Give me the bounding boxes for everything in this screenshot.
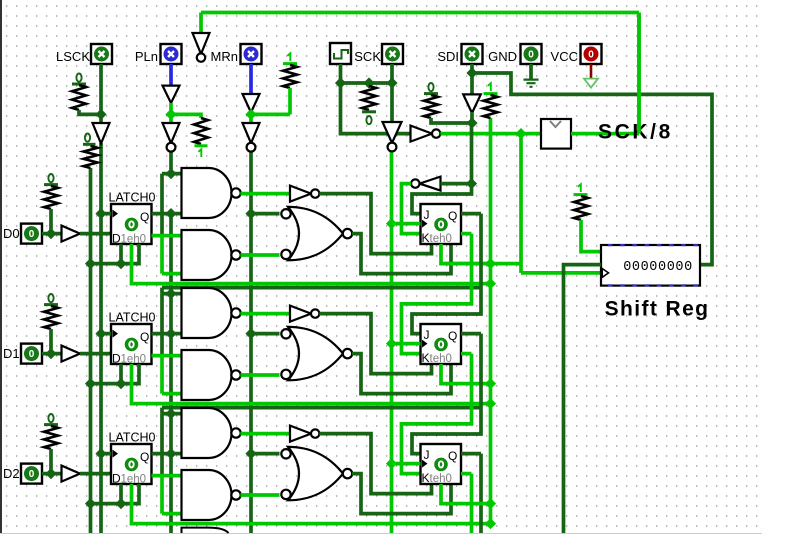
resistor R-LSCK 0-pull <box>72 85 86 110</box>
svg-text:Shift Reg: Shift Reg <box>605 297 710 320</box>
latch U1 box <box>111 204 152 244</box>
junction SCK b <box>363 77 374 88</box>
wire latch2 pin En <box>119 484 123 504</box>
buffer MRn (down) <box>243 94 260 113</box>
wire MRn pin down (blue) <box>249 64 253 94</box>
jk flip-flop FF1 box <box>421 324 462 364</box>
nor N2 <box>288 447 343 500</box>
wire latch0 pin En <box>119 244 123 264</box>
svg-text:Q: Q <box>140 210 149 224</box>
wire top feedback down <box>199 13 203 34</box>
label 0 R2 <box>85 134 90 142</box>
svg-text:Q: Q <box>140 330 149 344</box>
resistor R5 0-pull <box>362 86 376 110</box>
junction latch0 b1 <box>115 258 126 269</box>
resistor R4 pull-1 <box>283 65 297 88</box>
junction MRn tap g1 <box>245 328 256 339</box>
wire D0 to buffer <box>42 232 62 236</box>
wire MRn to nor g0 <box>251 212 280 216</box>
wire latch1 bottom to rail <box>91 364 140 384</box>
wire Q1 feedback row y=287.6 <box>162 286 481 290</box>
wire feedback vertical x=639 <box>637 13 641 134</box>
label 0 R-D0 <box>48 174 53 182</box>
nand U10 A g0 <box>182 168 232 218</box>
wire FF1 pin2 to rail <box>441 364 491 384</box>
rail bar 1 above R4 <box>283 62 297 65</box>
junction PLnn tap <box>165 168 176 179</box>
buffer PLn (down) <box>163 86 180 103</box>
wire latch0 Qn out <box>152 234 182 238</box>
inverter V1 (right) <box>290 306 311 322</box>
svg-text:0: 0 <box>528 50 534 61</box>
jk FF2 state circle <box>434 458 448 472</box>
wire feedback to nandA2 <box>162 292 182 296</box>
wire LSCK pin down <box>99 64 103 123</box>
wire invA2 out to JK pin <box>319 434 431 494</box>
wire SCKdiv input <box>440 132 541 136</box>
svg-text:PLn: PLn <box>135 49 158 64</box>
frequency divider box SCK/8 <box>541 119 571 149</box>
label 1 R3 <box>198 149 201 157</box>
rail bar 1 above R8 <box>574 193 588 196</box>
svg-text:0: 0 <box>29 229 35 240</box>
junction rail pin2 g1 <box>485 378 496 389</box>
wire shiftreg clk in <box>521 271 601 275</box>
wire R-D1 down <box>49 329 53 354</box>
wire R-D2 down <box>49 449 53 474</box>
wire latch0 bus y=283.6 <box>132 244 491 284</box>
wire SDI rail down <box>470 123 474 184</box>
wire R6 to SDI node <box>431 118 472 123</box>
buffer D2 (right) <box>62 466 81 482</box>
junction MRn tap g0 <box>245 208 256 219</box>
wire SDI buffer out <box>470 112 474 123</box>
wire FF0 pin2 to rail <box>441 244 491 264</box>
label 0 R1 <box>76 74 81 82</box>
label 0 R5 <box>366 116 371 124</box>
wire PLnn to nandA1 <box>162 172 182 176</box>
wire latch1 bus y=403.6 <box>132 364 491 404</box>
junction bus g0 rail <box>485 278 496 289</box>
wire rail LSCKn x=101 <box>99 143 103 533</box>
latch U1 state circle <box>125 218 139 232</box>
wire feedback elbow x=162 g2 <box>160 408 164 414</box>
wire latch0 clk <box>101 212 111 216</box>
svg-text:0: 0 <box>29 469 35 480</box>
wire latch2 clk <box>101 452 111 456</box>
wire nandB2 out to nor <box>240 493 279 497</box>
junction latch1 clk tap <box>95 328 106 339</box>
wire latch2 Q to nandA <box>171 452 182 456</box>
nand U15 B g2 <box>182 470 232 520</box>
shift register pin marks <box>608 245 698 285</box>
rail bar 1 above R7 <box>484 92 498 95</box>
nand U12 A g1 <box>182 288 232 338</box>
svg-text:J: J <box>424 208 430 222</box>
wire latch0 Q out <box>152 212 172 216</box>
jk FF1 state circle <box>434 338 448 352</box>
wire nandB1 out to nor <box>240 373 279 377</box>
wire feedback to nandA3 <box>162 412 182 416</box>
junction bus g2 rail <box>485 518 496 529</box>
junction nandA2 top feed <box>165 288 176 299</box>
wire latch1 Q to nandA <box>171 332 182 336</box>
junction LSCK node <box>95 109 106 120</box>
svg-text:D1: D1 <box>3 346 20 361</box>
wire PLn node to R3 <box>171 114 201 118</box>
wire x162 dark seg g0 <box>160 174 164 236</box>
inverter SCK (right) <box>411 126 433 142</box>
rail bar 0 D2 resistor <box>44 423 58 426</box>
svg-text:SDI: SDI <box>437 49 459 64</box>
wire x162 bright seg g2 <box>160 476 164 514</box>
wire latch1 Qn out <box>152 354 182 358</box>
canvas left border <box>0 0 2 533</box>
junction SCK a <box>335 77 346 88</box>
wire Qn0 to K1 <box>402 234 472 354</box>
wire Q0 to J1 <box>412 214 481 334</box>
wire Q0 out <box>461 212 481 216</box>
wire Qn0 out <box>461 232 472 236</box>
wire MRn buffer out <box>249 112 253 124</box>
latch U3 state circle <box>125 458 139 472</box>
wire invA0 out to JK pin <box>319 194 431 254</box>
wire invW0 out to K0 <box>402 184 421 234</box>
svg-text:K: K <box>422 231 430 245</box>
wire Q1 to J2 <box>412 334 481 454</box>
wire R4 to MRn node <box>288 88 292 114</box>
wire nandA0 out <box>240 192 290 196</box>
wire x162 dark seg g2 <box>160 414 164 476</box>
wire VCC pin down (dark red) <box>590 64 593 78</box>
svg-text:teh0: teh0 <box>430 233 452 245</box>
wire SCK horiz y=83 <box>341 81 393 85</box>
svg-text:1eh0: 1eh0 <box>121 474 147 486</box>
inverter MRn (down) <box>243 123 260 143</box>
wire Q2 out <box>461 452 481 456</box>
wire x162 dark seg g1 <box>160 294 164 356</box>
wire mystery net to shiftreg left <box>564 265 602 533</box>
junction latch0 clk tap <box>95 208 106 219</box>
inverter V2 (right) <box>290 426 311 442</box>
wire Qn1 out <box>461 352 472 356</box>
label 1 R8 <box>578 184 581 192</box>
svg-text:K: K <box>422 351 430 365</box>
svg-text:LSCK: LSCK <box>56 49 90 64</box>
junction SCK c <box>386 77 397 88</box>
junction clk tap FF0 <box>386 218 397 229</box>
resistor R8 pull-1 <box>574 196 588 220</box>
rail bar 0 for R2 <box>83 143 96 146</box>
svg-text:D0: D0 <box>3 226 20 241</box>
junction latch2 Q <box>165 448 176 459</box>
buffer D1 (right) <box>62 346 81 362</box>
junction latch0 Q <box>165 208 176 219</box>
input pin GND <box>521 44 542 64</box>
junction MRn tap g2 <box>245 448 256 459</box>
wire divider out <box>571 132 639 136</box>
inverter feedback (down) <box>193 33 210 54</box>
junction divider input <box>515 128 526 139</box>
svg-text:J: J <box>424 448 430 462</box>
label 0 R-D2 <box>48 414 53 422</box>
input pin LSCK <box>91 44 112 64</box>
svg-text:1eh0: 1eh0 <box>121 354 147 366</box>
junction D1 node <box>45 348 56 359</box>
wire latch2 bottom to rail <box>91 484 140 504</box>
rail bar 1 below R3 <box>195 144 208 147</box>
svg-text:0: 0 <box>29 349 35 360</box>
wire D1 to buffer <box>42 352 62 356</box>
wire Qn1 to K2 <box>402 354 472 474</box>
junction latch1 Q <box>165 328 176 339</box>
junction latch2 b2 <box>85 498 96 509</box>
jk FF0 state circle <box>434 218 448 232</box>
junction clk tap FF2 <box>386 458 397 469</box>
junction MRn node <box>245 109 256 120</box>
wire R8 to shiftreg ser in <box>581 220 601 252</box>
wire rail pullup-1 x=490.5 <box>489 118 493 524</box>
svg-text:J: J <box>424 328 430 342</box>
buffer SDI (down) <box>463 94 481 113</box>
wire top feedback horizontal <box>201 11 639 15</box>
svg-text:Q: Q <box>448 329 457 343</box>
wire clk to FF1 <box>392 342 421 346</box>
svg-text:D2: D2 <box>3 466 20 481</box>
wire nandA1 out <box>240 312 290 316</box>
junction D0 node <box>45 228 56 239</box>
rail bar 0 for R1 <box>72 83 86 86</box>
wire GND pin down <box>529 64 533 79</box>
svg-text:teh0: teh0 <box>430 353 452 365</box>
wire latch0 Qn to nandB <box>162 272 182 276</box>
jk flip-flop FF2 box <box>421 444 462 484</box>
latch U3 box <box>111 444 152 484</box>
svg-text:SCK: SCK <box>354 49 381 64</box>
input pin D2 <box>21 464 42 484</box>
svg-text:VCC: VCC <box>551 49 578 64</box>
wire R1 to LSCK node <box>79 110 101 114</box>
label 1 R7 <box>488 83 491 91</box>
junction rail pin2 g2 <box>485 498 496 509</box>
label 0 R-D1 <box>48 294 53 302</box>
junction latch1 b2 <box>85 378 96 389</box>
svg-text:LATCH0: LATCH0 <box>109 311 156 325</box>
junction D2 node <box>45 468 56 479</box>
wire D2 to latch D <box>80 472 111 476</box>
svg-text:GND: GND <box>488 49 517 64</box>
resistor R3 pull-1 <box>194 118 208 144</box>
nand U11 B g0 <box>182 230 232 280</box>
rail bar 0 below R5 <box>362 110 376 113</box>
wire latch1 clk <box>101 332 111 336</box>
ground symbol <box>524 80 539 87</box>
junction SDI top <box>466 67 477 78</box>
svg-text:Q: Q <box>140 450 149 464</box>
wire D0 to latch D <box>80 232 111 236</box>
resistor R-D2 0-pull <box>44 426 58 449</box>
wire D2 to buffer <box>42 472 62 476</box>
wire SDI to invW0 <box>441 182 472 186</box>
resistor R-D1 0-pull <box>44 306 58 329</box>
wire nor1 out to JK pin <box>352 354 451 394</box>
junction latch1 b1 <box>115 378 126 389</box>
wire Q2 down to edge <box>479 454 483 533</box>
nand U14 A g2 <box>182 408 232 458</box>
svg-text:LATCH0: LATCH0 <box>109 191 156 205</box>
input pin MRn <box>241 44 262 64</box>
wire Q2 feedback row y=407.6 <box>162 406 481 410</box>
svg-text:00000000: 00000000 <box>623 260 693 275</box>
wire feedback elbow x=162 g1 <box>160 288 164 294</box>
rail bar 0 D0 resistor <box>44 183 58 186</box>
junction latch0 b2 <box>85 258 96 269</box>
junction clk tap FF1 <box>386 338 397 349</box>
wire divider to shift reg clk <box>519 134 523 273</box>
wire latch0 Q to nandA <box>171 212 182 216</box>
wire D1 to latch D <box>80 352 111 356</box>
junction SDI tap <box>466 178 477 189</box>
wire nandB0 out to nor <box>240 253 279 257</box>
input pin VCC <box>581 44 602 64</box>
junction nandA3 top feed <box>165 408 176 419</box>
wire latch1 pin En <box>119 364 123 384</box>
wire nandA2 out <box>240 432 290 436</box>
buffer D0 (right) <box>62 226 81 242</box>
svg-text:1eh0: 1eh0 <box>121 234 147 246</box>
wire MRn to nor g2 <box>251 452 280 456</box>
wire nor2 out to JK pin <box>352 474 451 514</box>
input pin D1 <box>21 344 42 364</box>
clock source SCK <box>330 43 351 64</box>
inverter SCK (down) <box>383 122 402 143</box>
inverter PLn (down) <box>163 123 180 143</box>
wire jk pin to pullup bus <box>441 262 521 266</box>
svg-text:K: K <box>422 471 430 485</box>
supply symbol VCC <box>584 79 598 88</box>
label 0 R6 <box>428 83 433 91</box>
input pin SDI <box>462 44 483 64</box>
wire feedback vertical over text <box>637 13 641 134</box>
svg-text:0: 0 <box>588 50 594 61</box>
canvas bottom border <box>0 533 762 535</box>
wire PLn buffer out <box>169 103 173 123</box>
wire SCK clock down to inverter <box>341 64 411 134</box>
resistor R-D0 0-pull <box>44 186 58 209</box>
wire Qn2 out <box>461 472 472 476</box>
wire x162 bright seg g1 <box>160 356 164 394</box>
junction PLn node <box>165 109 176 120</box>
wire PLn pin down (blue) <box>169 64 173 86</box>
wire Qn2 down to edge <box>470 474 474 533</box>
wire clk to FF0 <box>392 222 421 226</box>
wire PLn inverter out to junction <box>169 152 173 174</box>
wire SDI to J0 <box>412 184 472 214</box>
shift register clk arrow <box>602 269 608 278</box>
latch U2 state circle <box>125 338 139 352</box>
nor N0 <box>288 207 343 260</box>
wire latch1 Q out <box>152 332 172 336</box>
svg-text:SCK/8: SCK/8 <box>598 121 673 144</box>
nand partial at canvas edge <box>182 528 229 533</box>
label 1 R4 <box>287 53 290 61</box>
wire rail SCKn x=391.5 <box>390 152 394 534</box>
wire invA1 out to JK pin <box>319 314 431 374</box>
inverter W0 (left) <box>420 177 441 191</box>
shift register box <box>601 245 700 286</box>
junction SDI node <box>466 117 477 128</box>
jk flip-flop FF0 box <box>421 204 462 244</box>
wire clk to FF2 <box>392 462 421 466</box>
rail bar 0 D1 resistor <box>44 303 58 306</box>
svg-text:LATCH0: LATCH0 <box>109 431 156 445</box>
wire latch2 Qn to nandB <box>162 512 182 516</box>
wire Q1 out <box>461 332 481 336</box>
svg-text:MRn: MRn <box>211 49 238 64</box>
input pin PLn <box>161 44 182 64</box>
wire SDI feedback from shift reg <box>472 73 712 265</box>
inverter V0 (right) <box>290 186 311 202</box>
svg-text:Q: Q <box>448 209 457 223</box>
wire SDI pin down <box>470 64 474 94</box>
wire FF2 pin2 to rail <box>441 484 491 504</box>
svg-text:teh0: teh0 <box>430 473 452 485</box>
resistor R7 pull-1 <box>484 95 498 118</box>
svg-text:Q: Q <box>448 449 457 463</box>
latch U2 box <box>111 324 152 364</box>
buffer LSCK (down) <box>93 123 110 144</box>
junction latch2 b1 <box>115 498 126 509</box>
wire rail MRnn x=251 <box>249 152 253 534</box>
wire latch1 Qn to nandB <box>162 392 182 396</box>
input pin SCK <box>382 44 403 64</box>
resistor R6 0-pull <box>424 95 438 118</box>
wire latch2 bus y=523.6 <box>132 484 491 524</box>
junction bus g1 rail <box>485 398 496 409</box>
nor N1 <box>288 327 343 380</box>
wire latch2 Qn out <box>152 474 182 478</box>
junction rail pin2 g0 <box>485 258 496 269</box>
wire latch0 bottom to rail <box>91 244 140 264</box>
wire x162 bright seg g0 <box>160 236 164 274</box>
input pin D0 <box>21 224 42 244</box>
nand U13 B g1 <box>182 350 232 400</box>
wire nor0 out to JK pin <box>352 234 451 274</box>
junction latch2 clk tap <box>95 448 106 459</box>
wire rail LSCK-pull x=90.5 <box>89 168 93 533</box>
wire MRn to nor g1 <box>251 332 280 336</box>
wire latch2 Q out <box>152 452 172 456</box>
resistor R2 on rail x=90.5 <box>84 146 98 168</box>
wire rail x=171 Q column <box>169 214 173 533</box>
rail bar 0 above R6 <box>424 92 438 95</box>
wire MRn node to R4 <box>251 113 290 117</box>
wire R-D0 down <box>49 209 53 234</box>
wire SCK pin down <box>390 64 394 122</box>
